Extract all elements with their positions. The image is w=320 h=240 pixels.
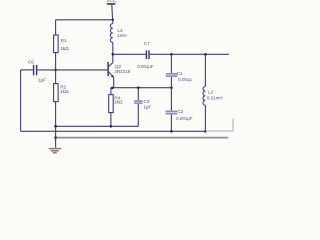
- transistor Q2: [107, 54, 130, 87]
- node C1 top junction: [170, 53, 173, 56]
- capacitor C3: [134, 100, 143, 104]
- wire gray rail: [56, 137, 229, 139]
- wire C3 branch upper: [137, 88, 139, 101]
- svg-text:C7: C7: [144, 41, 150, 46]
- node base junction: [54, 69, 57, 72]
- capacitor C2: [166, 111, 178, 115]
- wire C6 left stub: [21, 69, 33, 71]
- wire C1 bottom: [170, 77, 172, 88]
- wire base horizontal: [37, 69, 107, 71]
- node C2 bottom junction: [170, 130, 173, 133]
- wire R1 bottom: [55, 53, 57, 70]
- svg-text:VCC: VCC: [107, 0, 117, 3]
- svg-text:1kΩ: 1kΩ: [60, 89, 69, 94]
- svg-text:0.001μF: 0.001μF: [176, 116, 193, 121]
- wire left drop: [20, 70, 22, 131]
- node R4 bottom junction: [110, 125, 113, 128]
- wire C2 branch upper: [170, 88, 172, 111]
- svg-text:1μF: 1μF: [38, 77, 46, 82]
- capacitor C7: [146, 50, 149, 59]
- resistor R4: [109, 95, 114, 113]
- wire R2 top: [55, 70, 57, 84]
- wire R1 top: [55, 20, 57, 35]
- power VCC bar: [107, 3, 116, 5]
- wire C2 bottom: [170, 115, 172, 132]
- inductor L3: [112, 20, 114, 24]
- wire emitter horizontal: [111, 87, 171, 89]
- wire R4 bottom: [110, 113, 112, 127]
- wire VCC stem: [111, 5, 114, 20]
- svg-text:C2: C2: [177, 109, 183, 114]
- node top rail junction: [112, 19, 114, 21]
- resistor R2: [54, 84, 59, 102]
- node C3 top junction: [137, 86, 140, 89]
- node collector junction: [112, 53, 115, 56]
- inductor L2: [204, 54, 206, 86]
- node R2 wire1 junction: [54, 125, 57, 128]
- svg-text:C1: C1: [177, 71, 183, 76]
- svg-text:C6: C6: [28, 59, 34, 64]
- wire top rail: [56, 19, 113, 21]
- node emitter tap junction: [170, 86, 173, 89]
- capacitor C6: [34, 65, 37, 75]
- svg-text:2N2219: 2N2219: [114, 69, 130, 74]
- svg-text:1kΩ: 1kΩ: [60, 46, 69, 51]
- svg-text:0.001μF: 0.001μF: [137, 64, 154, 69]
- svg-text:L2: L2: [208, 90, 214, 95]
- node L2 bottom junction: [204, 130, 207, 133]
- svg-text:C3: C3: [144, 99, 150, 104]
- capacitor C1: [166, 73, 178, 77]
- wire C7 to right end: [150, 53, 229, 55]
- svg-text:1μF: 1μF: [143, 105, 151, 110]
- wire R4 top: [110, 88, 112, 95]
- wire collector to C7: [113, 53, 146, 55]
- wire C3 bottom: [137, 104, 139, 126]
- node L2 top junction: [204, 53, 207, 56]
- ground: [49, 138, 62, 152]
- svg-text:0.001μ: 0.001μ: [178, 77, 192, 82]
- svg-text:1mH: 1mH: [117, 33, 127, 38]
- wire ground bus: [21, 130, 206, 132]
- node rail junction: [54, 136, 57, 139]
- wire C1 branch upper: [170, 54, 172, 73]
- svg-text:0.01mH: 0.01mH: [207, 95, 223, 100]
- wire bottom mid (R2-R4-C3): [56, 125, 139, 127]
- node emitter junction: [111, 87, 114, 90]
- svg-text:1kΩ: 1kΩ: [114, 100, 123, 105]
- wire faint bottom-right continuation: [205, 119, 233, 131]
- wire R2 bottom: [55, 102, 57, 138]
- svg-text:R1: R1: [61, 38, 67, 43]
- resistor R1: [54, 35, 59, 53]
